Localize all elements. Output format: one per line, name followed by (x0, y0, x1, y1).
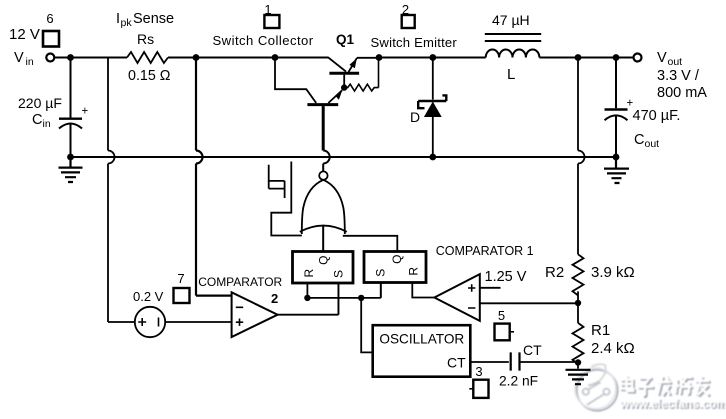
svg-text:in: in (26, 56, 34, 68)
wire comparator 2 output to latch1 S (278, 284, 339, 315)
wire bus R/oscillator/S (307, 283, 380, 298)
transistor Q1 upper base bar (329, 72, 359, 75)
wire Q1 drive (thick) with hop over bottom rail (322, 106, 325, 150)
source 0.2V (135, 307, 165, 337)
wire bottom rail (71, 156, 617, 158)
oscillator box (373, 325, 471, 377)
wire comparator 1 plus input 1.25V (480, 287, 501, 289)
pin box 5 (495, 324, 510, 341)
junction node feedback (575, 300, 581, 306)
capacitor Cin 220uF (59, 117, 82, 119)
diode D triangle (424, 102, 442, 118)
svg-text:Q1: Q1 (336, 32, 355, 47)
junction node R2 branch on top rail (575, 54, 582, 61)
junction node diode bottom (429, 154, 436, 161)
svg-text:3.9 kΩ: 3.9 kΩ (591, 264, 635, 281)
wire to oscillator (361, 298, 373, 353)
pin box 3 (473, 380, 488, 398)
wire top rail left (Vin to Q1 collector) (54, 57, 328, 59)
svg-text:3.3 V /: 3.3 V / (657, 68, 700, 84)
junction node Cout ground (613, 154, 620, 161)
transistor Q1 driver emitter with arrow (328, 90, 342, 103)
svg-text:Rs: Rs (137, 31, 154, 47)
svg-text:R: R (302, 268, 316, 277)
svg-text:+: + (82, 106, 89, 118)
svg-text:7: 7 (177, 271, 184, 286)
transistor Q1 upper emitter with arrow (349, 58, 380, 72)
svg-text:12 V: 12 V (9, 26, 40, 43)
pin box 2 (402, 15, 415, 28)
svg-text:47 µH: 47 µH (492, 12, 530, 28)
svg-text:I: I (116, 11, 120, 27)
watermark url text (619, 397, 726, 413)
svg-text:www.elecfans.com: www.elecfans.com (619, 397, 726, 411)
junction node pin7 branch (193, 54, 200, 61)
wire latch2 S stub (380, 283, 382, 298)
junction node Cout branch (613, 54, 620, 61)
transistor Q1 driver base bar (307, 103, 338, 106)
wire Cin branch (70, 58, 72, 118)
svg-text:470 µF.: 470 µF. (633, 108, 681, 124)
wire Vout branch down to R2 with hop over bottom rail (578, 58, 585, 255)
node Vout terminal (634, 54, 642, 62)
svg-text:D: D (410, 109, 420, 125)
svg-text:Q: Q (390, 255, 404, 264)
svg-text:CT: CT (523, 342, 542, 358)
junction node Q1 base/emitter resistor (341, 84, 347, 90)
wire top rail right (emitter to Vout) (379, 57, 634, 59)
wire CT to ground junction (520, 361, 579, 363)
svg-text:S: S (332, 270, 346, 278)
svg-text:6: 6 (46, 11, 53, 26)
svg-text:0.15 Ω: 0.15 Ω (128, 68, 171, 84)
wire NOR left input (271, 162, 302, 236)
svg-text:C: C (634, 132, 644, 148)
svg-text:800 mA: 800 mA (657, 85, 707, 101)
resistor R1 2.4k (573, 323, 584, 364)
resistor R2 3.9k (573, 254, 584, 295)
pin box 7 (174, 288, 190, 303)
svg-text:1.25 V: 1.25 V (485, 269, 527, 285)
pin box 6 (43, 31, 59, 47)
latch U2 (RQS box) (293, 252, 354, 284)
wire oscillator CT output (470, 361, 509, 363)
wire latch2 R stub to comparator 1 output (412, 283, 434, 298)
transistor Q1 darlington: upper collector wire (275, 58, 346, 72)
capacitor Cout 470uF (605, 108, 628, 110)
junction node latch1 R (304, 295, 310, 301)
svg-text:0.2 V: 0.2 V (133, 289, 164, 304)
wire R2 to R1 (577, 291, 579, 323)
NOR gate body (300, 180, 347, 234)
wire latch1 S stub (337, 283, 339, 315)
wire Cout branch (615, 58, 617, 109)
svg-text:S: S (374, 269, 388, 277)
junction node oscillator branch (358, 295, 364, 301)
wire pin7 vertical with hop over bottom rail (196, 58, 232, 296)
junction node Q1 collector branch (272, 54, 279, 61)
diode D vertical wire (432, 58, 434, 158)
junction node on bottom rail at Cin ground (67, 154, 74, 161)
inductor core lines (485, 34, 541, 41)
wire Q1 upper base down to junction (343, 75, 345, 88)
ground Cin (59, 157, 83, 182)
diode D schottky cathode bar (418, 95, 446, 108)
resistor Q1 base-emitter (344, 58, 378, 92)
svg-text:C: C (32, 112, 42, 128)
svg-text:2: 2 (271, 291, 278, 306)
svg-text:COMPARATOR 1: COMPARATOR 1 (436, 244, 534, 258)
svg-text:V: V (14, 50, 24, 66)
svg-text:3: 3 (475, 364, 482, 379)
wire latch1 Q to NOR gate middle input (322, 225, 324, 252)
junction node at Cin (67, 54, 74, 61)
transistor Q1 driver collector wire (275, 58, 316, 104)
svg-text:2.2 nF: 2.2 nF (499, 374, 538, 389)
wire Ipk sense vertical (no dot) with hop over bottom rail (108, 58, 135, 323)
svg-text:L: L (507, 66, 515, 83)
svg-text:5: 5 (498, 308, 505, 323)
svg-text:pk: pk (121, 17, 133, 29)
svg-text:in: in (43, 118, 51, 130)
wire comparator 1 minus input to feedback divider (480, 302, 578, 304)
latch U3 (SQR box) (364, 252, 426, 283)
node Vin input terminal (46, 54, 54, 62)
svg-text:Switch Collector: Switch Collector (213, 33, 314, 48)
junction node Q1 emitter rail (376, 54, 383, 61)
svg-text:1: 1 (264, 2, 271, 17)
watermark CJK text imitation (dian zi fa shao you) (621, 375, 711, 396)
svg-text:out: out (668, 56, 683, 68)
svg-text:220 µF: 220 µF (18, 95, 62, 111)
junction node diode top (429, 54, 436, 61)
inductor L 47uH (486, 49, 540, 57)
junction node CT/R1 ground (575, 359, 581, 365)
svg-text:COMPARATOR: COMPARATOR (198, 275, 282, 289)
svg-text:Sense: Sense (133, 11, 174, 27)
wire latch2 Q to NOR gate right input (343, 236, 398, 252)
svg-text:2.4 kΩ: 2.4 kΩ (591, 340, 635, 357)
svg-text:Switch Emitter: Switch Emitter (371, 35, 458, 50)
ground Cout (604, 157, 629, 183)
capacitor CT 2.2nF (511, 352, 520, 370)
pin box 1 (264, 15, 279, 28)
op-amp comparator 2 (232, 292, 278, 337)
svg-text:Q: Q (317, 256, 331, 265)
svg-text:out: out (645, 138, 660, 150)
svg-text:2: 2 (402, 2, 409, 17)
wire NOR middle input from latch1 Q (322, 225, 324, 252)
svg-text:R2: R2 (545, 264, 564, 281)
NOR gate bubble (319, 171, 327, 179)
svg-text:R: R (407, 267, 421, 276)
svg-text:CT: CT (447, 355, 466, 371)
resistor Rs 0.15 ohm (127, 52, 168, 63)
wire 0.2V source to comparator 2 plus input (165, 321, 231, 323)
svg-text:V: V (657, 50, 667, 66)
svg-text:R1: R1 (591, 322, 610, 339)
op-amp comparator 1 (434, 274, 479, 321)
wire latch1 R stub (306, 283, 308, 298)
ground R1/CT (566, 370, 591, 384)
wire R1 bottom to ground (577, 360, 579, 369)
oscillator clock waveform glyph (269, 165, 285, 198)
svg-text:OSCILLATOR: OSCILLATOR (379, 332, 464, 347)
